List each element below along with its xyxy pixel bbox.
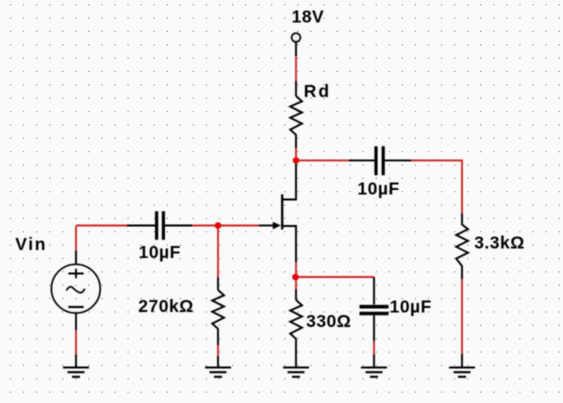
svg-text:Rd: Rd — [304, 81, 331, 101]
svg-text:330Ω: 330Ω — [306, 311, 351, 331]
svg-text:270kΩ: 270kΩ — [138, 296, 193, 316]
svg-text:3.3kΩ: 3.3kΩ — [474, 233, 525, 253]
svg-text:10µF: 10µF — [390, 297, 432, 317]
svg-text:Vin: Vin — [15, 234, 47, 254]
svg-text:10µF: 10µF — [139, 242, 181, 262]
svg-text:18V: 18V — [292, 7, 325, 27]
svg-text:10µF: 10µF — [357, 179, 399, 199]
